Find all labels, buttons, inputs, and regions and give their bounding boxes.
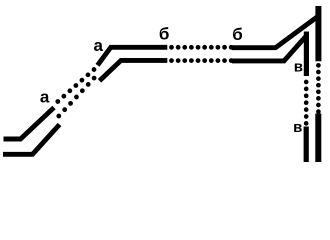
lower road edge: solid diagonal to upper bend + horizontal to section b	[100, 60, 168, 80]
upper road edge: solid diagonal to upper bend + horizontal to section b	[98, 47, 168, 65]
svg-text:а: а	[40, 88, 50, 107]
lower road edge: solid vertical to bottom edge	[304, 127, 309, 163]
lower road edge: hairpin vertical bar (flat top)	[304, 32, 309, 77]
svg-text:в: в	[293, 119, 302, 136]
svg-text:б: б	[159, 25, 170, 44]
upper road edge: dotted vertical section v	[316, 65, 321, 112]
upper road edge: left horizontal + lower diagonal solid segment	[4, 108, 55, 140]
upper road edge: solid horizontal + diagonal rising to hairpin	[232, 16, 318, 48]
upper road edge: dotted diagonal section a-a	[58, 70, 94, 102]
svg-text:б: б	[232, 25, 243, 44]
lower road edge: dotted horizontal section b-b	[172, 58, 232, 63]
lower road edge: dotted vertical section v	[304, 82, 309, 124]
svg-text:в: в	[294, 59, 303, 76]
upper road edge: dotted horizontal section b-b	[172, 45, 232, 50]
svg-text:а: а	[94, 36, 104, 55]
lower road edge: dotted diagonal section a-a	[59, 78, 94, 116]
upper road edge: hairpin vertical bar (flat top)	[315, 6, 321, 61]
upper road edge: solid vertical to bottom edge	[315, 114, 321, 163]
lower road edge: solid horizontal + diagonal rising to hairpin	[232, 36, 307, 61]
lower road edge: left horizontal + lower diagonal solid segment	[3, 125, 60, 155]
